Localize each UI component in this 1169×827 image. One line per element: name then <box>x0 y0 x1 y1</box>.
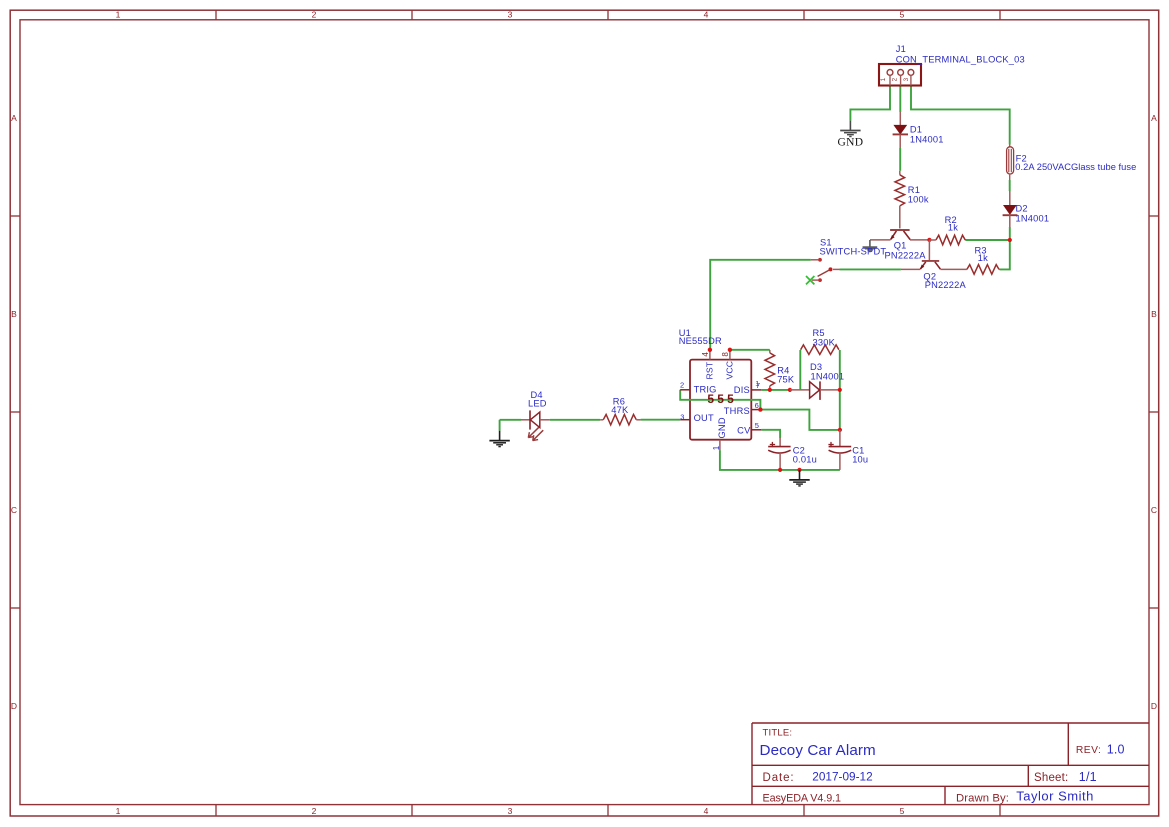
svg-text:8: 8 <box>721 352 730 357</box>
svg-text:Taylor Smith: Taylor Smith <box>1016 789 1094 804</box>
svg-text:6: 6 <box>755 401 759 410</box>
svg-text:7: 7 <box>756 381 760 390</box>
svg-text:3: 3 <box>680 412 684 421</box>
svg-text:D1: D1 <box>910 125 922 135</box>
svg-text:1: 1 <box>712 445 721 450</box>
svg-text:2017-09-12: 2017-09-12 <box>812 770 872 784</box>
svg-text:5: 5 <box>900 10 905 20</box>
svg-text:3: 3 <box>508 10 513 20</box>
svg-text:SWITCH-SPDT: SWITCH-SPDT <box>820 247 887 257</box>
svg-text:EasyEDA V4.9.1: EasyEDA V4.9.1 <box>763 792 842 804</box>
svg-text:Decoy Car Alarm: Decoy Car Alarm <box>760 742 876 759</box>
svg-text:1k: 1k <box>978 253 988 263</box>
svg-text:A: A <box>11 113 17 123</box>
svg-text:GND: GND <box>837 137 863 149</box>
svg-text:B: B <box>1151 309 1157 319</box>
svg-text:OUT: OUT <box>694 413 714 423</box>
svg-text:5: 5 <box>755 421 759 430</box>
svg-text:100k: 100k <box>908 195 929 205</box>
svg-text:75K: 75K <box>777 375 795 385</box>
svg-text:3: 3 <box>508 806 513 816</box>
svg-text:4: 4 <box>704 806 709 816</box>
svg-text:Drawn By:: Drawn By: <box>956 793 1009 805</box>
svg-text:GND: GND <box>717 417 727 438</box>
svg-text:1: 1 <box>116 806 121 816</box>
svg-text:0.2A 250VACGlass tube fuse: 0.2A 250VACGlass tube fuse <box>1015 162 1136 172</box>
svg-text:D2: D2 <box>1016 203 1028 213</box>
svg-text:D3: D3 <box>810 362 822 372</box>
svg-text:LED: LED <box>528 398 547 408</box>
svg-text:2: 2 <box>312 806 317 816</box>
svg-text:2: 2 <box>892 77 899 81</box>
svg-text:10u: 10u <box>852 454 868 464</box>
svg-text:R1: R1 <box>908 185 920 195</box>
svg-text:CON_TERMINAL_BLOCK_03: CON_TERMINAL_BLOCK_03 <box>896 55 1025 65</box>
svg-text:1.0: 1.0 <box>1107 742 1125 756</box>
svg-text:4: 4 <box>701 352 710 357</box>
svg-text:47K: 47K <box>611 405 629 415</box>
svg-text:VCC: VCC <box>725 361 735 380</box>
svg-text:Date:: Date: <box>763 772 795 784</box>
svg-text:2: 2 <box>312 10 317 20</box>
svg-text:D: D <box>11 701 17 711</box>
svg-text:2: 2 <box>680 380 684 389</box>
svg-text:4: 4 <box>704 10 709 20</box>
svg-text:RST: RST <box>705 361 715 379</box>
svg-text:R5: R5 <box>813 328 825 338</box>
svg-text:1N4001: 1N4001 <box>811 371 845 381</box>
svg-text:1: 1 <box>880 77 887 81</box>
svg-text:THRS: THRS <box>724 406 750 416</box>
svg-text:1N4001: 1N4001 <box>910 135 944 145</box>
svg-text:1: 1 <box>116 10 121 20</box>
svg-text:Sheet:: Sheet: <box>1034 772 1068 784</box>
svg-text:PN2222A: PN2222A <box>925 280 967 290</box>
svg-text:C: C <box>11 505 17 515</box>
svg-text:5: 5 <box>900 806 905 816</box>
svg-text:Q1: Q1 <box>894 241 907 251</box>
svg-text:3: 3 <box>903 77 910 81</box>
svg-text:330K: 330K <box>813 337 836 347</box>
svg-text:555: 555 <box>707 392 737 406</box>
svg-text:D: D <box>1151 701 1157 711</box>
svg-text:B: B <box>11 309 17 319</box>
svg-text:C: C <box>1151 505 1157 515</box>
svg-text:TITLE:: TITLE: <box>763 728 793 739</box>
svg-text:NE555DR: NE555DR <box>679 336 722 346</box>
svg-text:1/1: 1/1 <box>1079 770 1097 784</box>
svg-text:J1: J1 <box>896 44 906 54</box>
svg-text:1N4001: 1N4001 <box>1016 214 1050 224</box>
svg-text:PN2222A: PN2222A <box>885 250 927 260</box>
svg-text:REV:: REV: <box>1076 745 1101 756</box>
svg-text:0.01u: 0.01u <box>793 454 817 464</box>
svg-text:CV: CV <box>737 426 751 436</box>
svg-text:1k: 1k <box>948 222 958 232</box>
svg-text:A: A <box>1151 113 1157 123</box>
